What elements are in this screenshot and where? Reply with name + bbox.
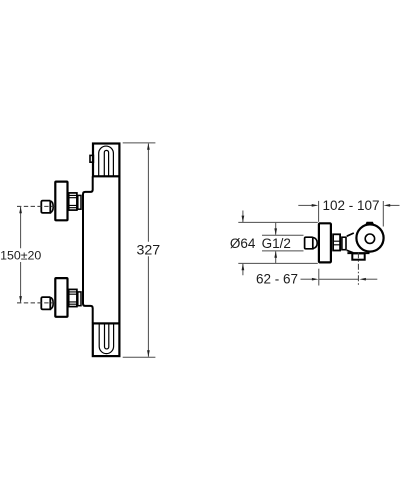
top cap arch inner — [104, 150, 108, 176]
lower nut serrations — [69, 292, 77, 304]
side serrated nut — [333, 234, 340, 250]
lower handle plate — [55, 278, 67, 317]
Ø64 arrow down — [242, 216, 245, 223]
body left profile with steps — [83, 176, 93, 322]
dimension 327 extension top — [123, 142, 156, 144]
elbow inner circle — [365, 234, 374, 243]
side knob dome — [313, 237, 317, 248]
side collar — [342, 237, 346, 250]
dim 102-107 extension left — [318, 201, 320, 222]
side knob — [305, 237, 313, 249]
upper dashed centerline — [17, 205, 55, 207]
svg-text:Ø64: Ø64 — [230, 236, 256, 251]
elbow top tab — [365, 222, 374, 225]
upper knob dome — [50, 201, 53, 213]
body right edge — [118, 176, 120, 323]
svg-text:150±20: 150±20 — [0, 249, 41, 263]
upper valve knob — [41, 201, 50, 213]
top cap arch outer — [99, 146, 114, 176]
dim Ø64 line top — [242, 211, 244, 276]
svg-text:327: 327 — [136, 242, 160, 258]
lower collar — [78, 292, 81, 306]
dim 102-107 right arrow line — [390, 204, 400, 206]
taper to elbow — [347, 233, 354, 253]
lower knob dome — [50, 297, 53, 309]
side nut serrations — [333, 241, 340, 245]
upper serrated nut — [69, 193, 77, 210]
62-67 arrow left — [359, 278, 366, 281]
dim Ø64 extension top — [238, 221, 317, 223]
outlet dash-dot centerline — [357, 252, 359, 285]
62-67 arrow right — [312, 278, 319, 281]
dim Ø64 extension bottom — [238, 262, 317, 264]
dim 62-67 line — [319, 278, 358, 280]
upper handle plate — [55, 182, 67, 221]
dim 62-67 right arrow line — [366, 278, 378, 280]
top cap — [93, 144, 119, 177]
lower serrated nut — [69, 289, 77, 306]
dim G1/2 line — [275, 223, 277, 263]
327 arrow up — [147, 143, 150, 150]
wall plate (side) — [319, 223, 331, 262]
dim 102-107 extension right — [382, 201, 384, 227]
dim 102-107 left arrow line — [298, 204, 312, 206]
lower dashed centerline — [17, 302, 55, 304]
dimension 150±20 line — [20, 207, 22, 302]
lower valve knob — [41, 297, 50, 309]
150±20 arrow up — [19, 207, 22, 214]
Ø64 arrow up — [242, 264, 245, 271]
upper nut serrations — [69, 195, 77, 207]
150±20 arrow down — [19, 296, 22, 303]
svg-text:62 - 67: 62 - 67 — [256, 272, 298, 287]
elbow bottom edge — [347, 252, 369, 254]
102-107 arrow left — [384, 204, 391, 207]
G1/2 arrow up — [274, 251, 277, 258]
dim 62-67 extension left — [318, 269, 320, 286]
G1/2 arrow down — [274, 228, 277, 235]
327 arrow down — [147, 350, 150, 357]
bottom cap U outer — [99, 324, 113, 354]
dim G1/2 extension bottom — [262, 250, 304, 252]
top cap tab — [90, 155, 93, 162]
102-107 arrow right — [312, 204, 319, 207]
dimension 327 line — [147, 144, 149, 357]
bottom cap U inner — [105, 324, 109, 349]
svg-text:102 - 107: 102 - 107 — [322, 198, 379, 213]
outlet below elbow — [352, 253, 364, 259]
dimension 327 extension bottom — [123, 356, 156, 358]
upper collar — [78, 195, 81, 209]
dim G1/2 extension top — [262, 234, 304, 236]
bottom cap — [93, 323, 120, 356]
elbow circle — [356, 224, 383, 251]
svg-text:G1/2: G1/2 — [262, 236, 291, 251]
dim 62-67 left arrow line — [301, 278, 313, 280]
